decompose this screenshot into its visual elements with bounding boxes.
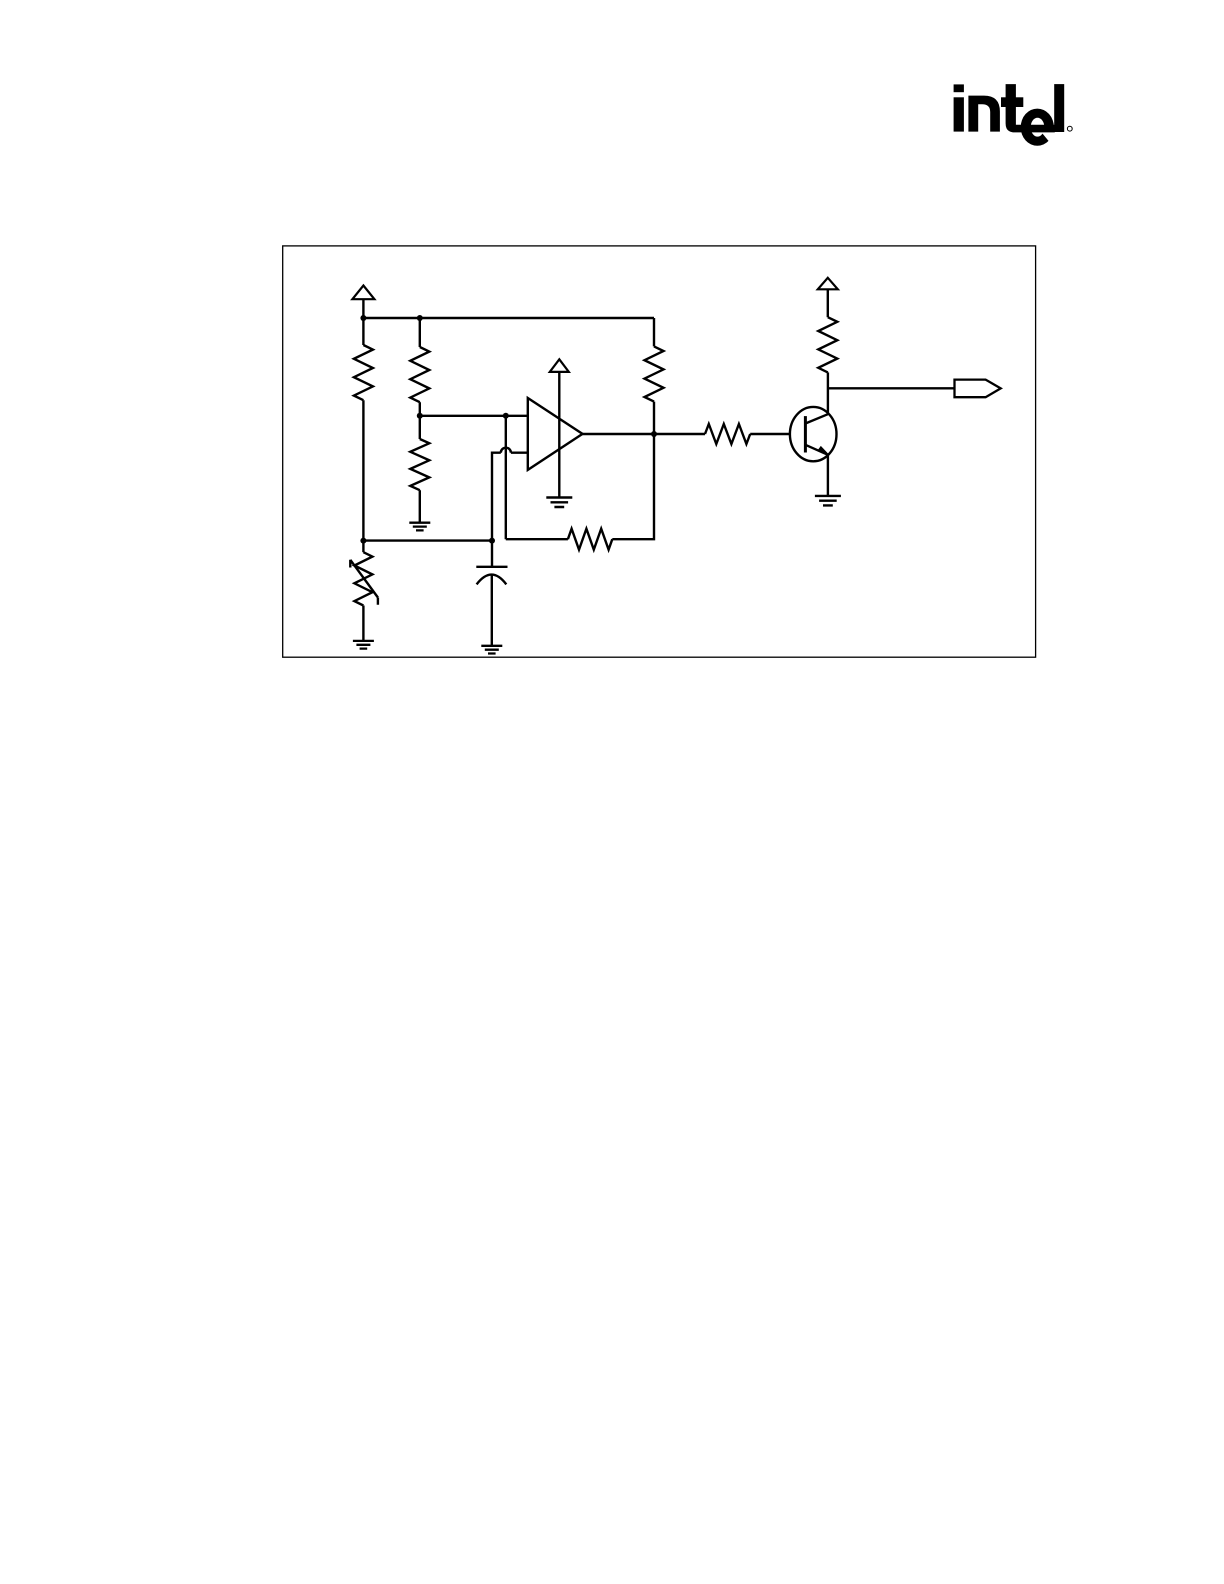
wire op-amp output — [583, 433, 706, 435]
wire collector — [827, 372, 829, 414]
ground transistor — [815, 496, 841, 506]
ground thermistor — [353, 641, 374, 649]
wire feedback vertical from plus node — [505, 416, 507, 539]
wire feedback to output leg — [612, 434, 654, 539]
wire to output connector — [828, 387, 955, 389]
thermistor RT1 — [362, 541, 364, 553]
VCC arrow right — [818, 278, 838, 290]
transistor Q1 — [790, 407, 837, 461]
resistor R4 — [419, 416, 421, 439]
wire minus-input with hop — [511, 452, 528, 454]
node top-left junction — [360, 315, 366, 321]
node capacitor junction — [489, 538, 495, 544]
wire emitter — [827, 455, 829, 496]
VCC arrow op-amp — [550, 359, 569, 372]
wire R1 bottom to lower rail — [362, 400, 364, 540]
ground capacitor — [481, 646, 502, 654]
node lower-left junction — [360, 538, 366, 544]
output connector — [955, 380, 1001, 398]
wire op-amp power/ground stem — [558, 372, 560, 498]
op-amp U1 — [528, 398, 583, 470]
resistor R1 — [362, 318, 364, 345]
node output junction — [651, 431, 657, 437]
resistor R5 — [827, 289, 829, 317]
capacitor C1 — [491, 541, 493, 567]
node R2 top junction — [417, 315, 423, 321]
VCC arrow left — [352, 286, 374, 300]
ground R4 — [409, 523, 430, 531]
wire lower rail — [363, 539, 492, 541]
wire top rail — [363, 317, 654, 319]
node R2-R4 junction — [417, 413, 423, 419]
wire VCC-left stem to top rail — [362, 299, 364, 318]
node plus-input feedback junction — [503, 413, 509, 419]
resistor R3 — [653, 318, 655, 346]
wire feedback lower horizontal — [506, 538, 568, 540]
ground op-amp — [546, 498, 572, 508]
resistor R6 feedback — [568, 529, 612, 550]
wire R7 to base — [750, 433, 804, 435]
resistor R7 base — [705, 424, 750, 444]
wire plus-input rail — [420, 415, 528, 417]
intel logo — [954, 84, 1073, 146]
resistor R2 — [419, 318, 421, 347]
